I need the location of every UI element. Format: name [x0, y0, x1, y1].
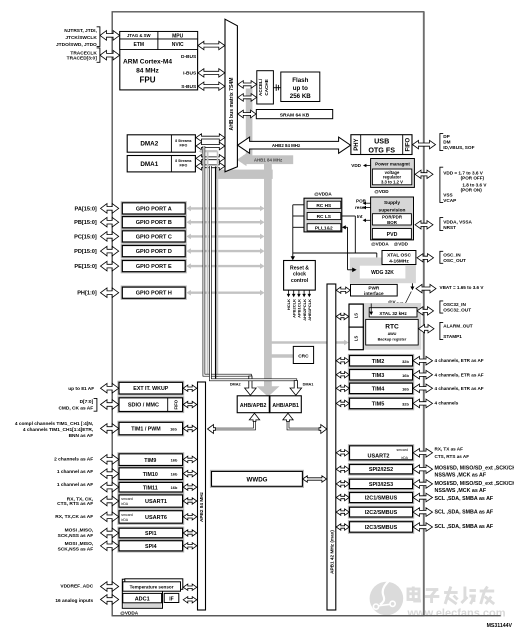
svg-text:PWR: PWR	[368, 286, 380, 291]
MPU box	[158, 32, 198, 40]
svg-text:4 channels, ETR as AF: 4 channels, ETR as AF	[435, 386, 484, 391]
svg-text:Int: Int	[357, 214, 363, 219]
svg-text:SCK,NSS as AF: SCK,NSS as AF	[58, 547, 94, 553]
svg-text:JTDO/SWD, JTDO: JTDO/SWD, JTDO	[56, 42, 97, 48]
svg-text:4 channels: 4 channels	[435, 400, 459, 405]
JTAG & SW box	[120, 32, 158, 40]
wire RC LS to clock rail	[342, 215, 356, 217]
svg-text:up to: up to	[293, 85, 308, 92]
bracket TRACE pins	[97, 48, 100, 62]
GPIO PORT C box	[121, 230, 186, 243]
peripheral pin arrows left rail	[101, 383, 119, 393]
svg-text:JTAG & SW: JTAG & SW	[127, 33, 151, 38]
svg-text:RX, TX,CK as AF: RX, TX,CK as AF	[55, 514, 93, 520]
svg-text:MOSI/SD, MISO/SD_ext ,SCK/CK: MOSI/SD, MISO/SD_ext ,SCK/CK	[435, 465, 514, 471]
svg-text:16b: 16b	[171, 458, 178, 463]
cache-flash link	[274, 87, 281, 89]
svg-text:SCL ,SDA, SMBA as AF: SCL ,SDA, SMBA as AF	[435, 524, 494, 530]
RTC backup gray box	[349, 303, 421, 350]
AHB1 gray band below bus matrix	[217, 170, 273, 179]
svg-text:VDDA, VSSA: VDDA, VSSA	[443, 219, 472, 224]
svg-text:Reset &: Reset &	[290, 266, 309, 272]
ALARM pin labels	[440, 322, 443, 339]
gray AHB1 branch to GPIO E	[189, 265, 261, 267]
svg-text:TIM4: TIM4	[372, 386, 385, 392]
SDIO MMC box	[118, 397, 184, 413]
USB pins arrow	[413, 140, 436, 148]
I2C3/SMBUS box	[348, 521, 413, 534]
AHB/APB1 bridge	[270, 396, 301, 413]
svg-text:PVD: PVD	[387, 232, 398, 238]
svg-text:AHB1PCLK: AHB1PCLK	[307, 299, 312, 321]
NVIC box	[158, 39, 198, 50]
svg-text:CTS, RTS as AF: CTS, RTS as AF	[435, 454, 470, 459]
svg-text:SPI3/I2S3: SPI3/I2S3	[369, 482, 393, 488]
PVD box	[372, 229, 411, 240]
XTAL OSC box	[382, 251, 416, 265]
svg-text:clock: clock	[293, 272, 306, 278]
RTC box	[366, 319, 419, 345]
svg-text:TIM11: TIM11	[143, 485, 158, 491]
svg-text:smcard: smcard	[121, 513, 133, 517]
svg-text:(POR ON): (POR ON)	[461, 188, 483, 193]
svg-text:www.elecfans.com: www.elecfans.com	[407, 608, 506, 620]
svg-text:ADC1: ADC1	[135, 597, 150, 603]
svg-text:VSS: VSS	[443, 193, 452, 198]
USB pin labels	[440, 134, 443, 151]
svg-text:USB: USB	[374, 136, 389, 145]
svg-text:CMD, CK as AF: CMD, CK as AF	[58, 406, 93, 412]
svg-text:I-BUS: I-BUS	[183, 71, 197, 77]
DMA1 to bus-matrix arrows	[196, 155, 225, 163]
RTC to APB1 arrow	[336, 313, 349, 319]
VDDA NRST pin labels	[440, 218, 443, 231]
WWDG box	[210, 470, 303, 487]
WDG 32K box	[360, 266, 406, 279]
svg-text:AHB/APB2: AHB/APB2	[240, 403, 267, 409]
svg-text:FIFO: FIFO	[180, 163, 188, 167]
svg-text:GPIO PORT C: GPIO PORT C	[136, 234, 172, 240]
svg-text:@VDDA: @VDDA	[314, 192, 332, 197]
watchdog backup gray box	[350, 258, 416, 284]
SRAM box	[256, 110, 332, 119]
svg-text:PLL1&2: PLL1&2	[315, 225, 333, 231]
svg-text:USART2: USART2	[367, 453, 389, 459]
TIM10 box	[118, 467, 184, 481]
svg-text:LS: LS	[354, 313, 359, 319]
ADC1 box	[123, 593, 162, 602]
gray AHB1 branch to GPIO H	[189, 292, 261, 294]
svg-text:PH[1:0]: PH[1:0]	[77, 291, 97, 297]
svg-text:AWU: AWU	[388, 332, 397, 336]
svg-text:supervision: supervision	[379, 207, 406, 213]
svg-text:I2C3/SMBUS: I2C3/SMBUS	[365, 525, 398, 531]
clock wires to RCC	[293, 204, 304, 206]
svg-text:NRST: NRST	[443, 225, 456, 230]
svg-text:@VDD: @VDD	[394, 242, 409, 247]
svg-text:SCK,NSS as AF: SCK,NSS as AF	[58, 533, 94, 539]
wire XTAL to PLL region	[293, 252, 377, 254]
svg-text:ARM Cortex-M4: ARM Cortex-M4	[123, 59, 172, 66]
GPIO PORT D box	[121, 244, 186, 257]
svg-text:APB1 42 MHz (max): APB1 42 MHz (max)	[329, 530, 334, 574]
TRACE pins arrow	[100, 50, 120, 60]
svg-text:VDDREF_ADC: VDDREF_ADC	[60, 584, 93, 590]
svg-text:CACHE: CACHE	[264, 79, 269, 95]
svg-text:GPIO PORT E: GPIO PORT E	[136, 264, 172, 270]
POR PDR BOR box	[372, 214, 411, 225]
svg-text:WWDG: WWDG	[247, 476, 268, 483]
bus-matrix to SRAM arrow	[238, 110, 256, 118]
svg-text:TIM5: TIM5	[372, 401, 385, 407]
svg-text:OTG FS: OTG FS	[368, 145, 395, 154]
I-BUS arrow	[198, 69, 225, 77]
PWR interface box	[351, 284, 398, 296]
svg-text:SPI2/I2S2: SPI2/I2S2	[369, 467, 393, 473]
svg-text:@VDDA: @VDDA	[371, 242, 389, 247]
svg-text:256 KB: 256 KB	[290, 93, 312, 100]
svg-text:Temperature sensor: Temperature sensor	[130, 585, 174, 590]
svg-text:Backup register: Backup register	[378, 338, 407, 342]
svg-text:BNN as AF: BNN as AF	[69, 433, 94, 439]
svg-text:16b: 16b	[170, 426, 177, 431]
svg-text:VDD: VDD	[351, 163, 361, 168]
svg-text:TIM10: TIM10	[143, 472, 158, 478]
WWDG to APB1 arrow	[303, 476, 327, 482]
DMA2 block	[127, 135, 195, 152]
GPIO pin arrows	[101, 204, 119, 214]
USB OTG FS block	[351, 135, 412, 155]
DMA1 request path to bridge	[210, 166, 295, 388]
JTAG pins arrow	[100, 31, 120, 41]
svg-text:D[7:0]: D[7:0]	[80, 399, 94, 405]
svg-text:PB[15:0]: PB[15:0]	[74, 220, 97, 226]
svg-text:EXT IT. WKUP: EXT IT. WKUP	[133, 386, 168, 392]
gray AHB1 branch to RTC block	[272, 341, 346, 343]
svg-text:1 channel as AF: 1 channel as AF	[57, 482, 93, 488]
I2C1/SMBUS box	[348, 491, 413, 503]
svg-text:MOSI ,MISO,: MOSI ,MISO,	[65, 528, 94, 534]
svg-text:32b: 32b	[402, 401, 409, 406]
Power managmt block	[371, 159, 415, 188]
gray echo line DMA1	[217, 151, 219, 377]
svg-text:AHB bus matrix 7S4M: AHB bus matrix 7S4M	[229, 78, 235, 131]
svg-text:XTAL 32 kHz: XTAL 32 kHz	[379, 311, 407, 316]
svg-text:XTAL OSC: XTAL OSC	[387, 252, 411, 258]
svg-text:FIFO: FIFO	[180, 143, 188, 147]
svg-text:1 channel as AF: 1 channel as AF	[57, 469, 93, 475]
power pins arrow	[415, 170, 433, 178]
svg-text:AHB2 84 MHz: AHB2 84 MHz	[272, 143, 301, 148]
svg-text:MPU: MPU	[172, 33, 184, 39]
svg-text:VBAT = 1.65 to 3.6 V: VBAT = 1.65 to 3.6 V	[440, 285, 485, 290]
ARM Cortex CPU block	[120, 32, 198, 90]
GPIO PORT A box	[121, 202, 186, 215]
svg-text:Supply: Supply	[384, 200, 400, 206]
OSC32 pin labels	[440, 301, 443, 313]
DMA2 request path to bridge	[204, 146, 251, 388]
svg-text:PC[15:0]: PC[15:0]	[74, 234, 97, 240]
svg-text:DMA1: DMA1	[303, 383, 314, 387]
gray echo band DMA	[202, 150, 218, 152]
svg-text:NSS/WS ,MCK as AF: NSS/WS ,MCK as AF	[435, 488, 487, 494]
svg-text:WDG 32K: WDG 32K	[371, 270, 394, 276]
svg-text:AHB1 84 MHz: AHB1 84 MHz	[254, 158, 283, 163]
svg-text:NJTRST, JTDI,: NJTRST, JTDI,	[64, 28, 97, 34]
Temperature sensor box	[123, 582, 181, 591]
svg-text:Flash: Flash	[292, 77, 308, 84]
svg-text:interface: interface	[364, 291, 384, 296]
bracket JTAG pins	[97, 27, 100, 47]
watermark logo circle	[370, 582, 404, 616]
OSC pins arrow	[417, 254, 434, 262]
svg-text:4-16MHz: 4-16MHz	[389, 259, 409, 265]
svg-text:JTCK/SWCLK: JTCK/SWCLK	[65, 35, 97, 41]
svg-text:16b: 16b	[402, 386, 409, 391]
svg-text:SPI1: SPI1	[145, 531, 157, 537]
USART6 box	[118, 510, 184, 525]
NVIC to bus-matrix arrow	[198, 41, 225, 49]
LSI box	[349, 327, 363, 350]
svg-text:TIM1 / PWM: TIM1 / PWM	[131, 427, 161, 433]
svg-text:MS31144V: MS31144V	[487, 623, 513, 629]
svg-text:OSC32_IN: OSC32_IN	[443, 302, 466, 307]
svg-text:ALARM_OUT: ALARM_OUT	[443, 323, 473, 328]
svg-text:TRACED[3:0]: TRACED[3:0]	[67, 56, 98, 62]
wire into XTAL32	[370, 304, 372, 312]
TIM1 PWM box	[118, 421, 184, 436]
gray AHB1 branch to GPIO B	[189, 221, 261, 223]
PLL box	[307, 224, 341, 231]
svg-text:16b: 16b	[171, 485, 178, 490]
Reset and clock control box	[284, 261, 316, 291]
DMA2 to bus-matrix arrows	[196, 134, 225, 142]
RC LS box	[307, 213, 341, 220]
chip boundary box	[112, 12, 424, 616]
svg-text:NVIC: NVIC	[172, 42, 184, 48]
svg-text:PE[15:0]: PE[15:0]	[74, 264, 97, 270]
SPI3/I2S3 box	[348, 478, 413, 490]
bridge to APB2 connector	[211, 416, 255, 429]
svg-text:CRC: CRC	[298, 354, 309, 360]
svg-text:PA[15:0]: PA[15:0]	[75, 206, 97, 212]
svg-text:DMA2: DMA2	[140, 141, 158, 148]
gray AHB1 branch to GPIO A	[189, 207, 261, 209]
gray echo line DMA2	[207, 151, 209, 376]
AHB1 gray riser to bridges	[264, 158, 272, 388]
svg-text:OSC_IN: OSC_IN	[443, 252, 461, 257]
SPI4 box	[118, 540, 184, 552]
svg-text:I2C1/SMBUS: I2C1/SMBUS	[365, 496, 398, 502]
svg-text:4 compl channels TIM1_CH1 [:4]: 4 compl channels TIM1_CH1 [:4]N,	[15, 421, 94, 427]
TIM2 box	[348, 354, 413, 367]
svg-text:DMA2: DMA2	[230, 383, 241, 387]
svg-text:IF: IF	[169, 596, 173, 602]
svg-text:LS: LS	[354, 336, 359, 342]
I2C2/SMBUS box	[348, 506, 413, 518]
GPIO PORT H box	[121, 286, 186, 299]
RC HS box	[307, 201, 341, 208]
svg-text:SPI4: SPI4	[145, 544, 157, 550]
AHB1 84MHz gray bus bar	[243, 155, 293, 164]
TIM4 box	[348, 382, 413, 395]
TIM11 box	[118, 481, 184, 493]
gray AHB1 branch to GPIO C	[189, 235, 261, 237]
svg-text:AHB/APB1: AHB/APB1	[272, 403, 299, 409]
AHB/APB2 bridge	[237, 396, 269, 413]
svg-text:smcard: smcard	[397, 448, 409, 452]
svg-text:DMA1: DMA1	[140, 161, 158, 168]
XTAL 32kHz box	[369, 308, 417, 317]
svg-text:USART6: USART6	[145, 515, 167, 521]
svg-text:GPIO PORT H: GPIO PORT H	[136, 291, 172, 297]
svg-text:control: control	[291, 278, 309, 284]
svg-text:4 channels, ETR as AF: 4 channels, ETR as AF	[435, 372, 484, 377]
svg-text:NSS/WS ,MCK as AF: NSS/WS ,MCK as AF	[435, 472, 487, 478]
svg-text:up to 81 AF: up to 81 AF	[68, 386, 94, 392]
VBAT pins arrow	[416, 284, 436, 292]
TIM9 box	[118, 453, 184, 467]
svg-text:8 Streams: 8 Streams	[175, 139, 191, 143]
watermark chinese characters	[408, 589, 419, 600]
svg-text:16b: 16b	[171, 472, 178, 477]
IF box	[164, 593, 179, 602]
svg-text:SDIO / MMC: SDIO / MMC	[128, 403, 159, 409]
OSC pin labels	[440, 251, 443, 263]
svg-text:16b: 16b	[402, 373, 409, 378]
svg-text:USART1: USART1	[145, 499, 167, 505]
svg-text:DP: DP	[443, 134, 450, 139]
GPIO PORT B box	[121, 216, 186, 229]
Flash box	[281, 72, 320, 102]
ADC container box	[122, 579, 162, 608]
svg-text:SRAM 64 KB: SRAM 64 KB	[280, 113, 310, 119]
gray AHB1 branch to CRC	[272, 354, 294, 358]
DMA1 block	[127, 156, 195, 172]
svg-text:MOSI/SD, MISO/SD_ext ,SCK/CK: MOSI/SD, MISO/SD_ext ,SCK/CK	[435, 481, 514, 487]
svg-text:SCL ,SDA, SMBA as AF: SCL ,SDA, SMBA as AF	[435, 510, 494, 516]
svg-text:4 channels, ETR as AF: 4 channels, ETR as AF	[435, 358, 484, 363]
USART2 box	[348, 445, 413, 461]
AHB bus matrix	[225, 19, 237, 172]
APB1 bus bar	[327, 284, 336, 610]
svg-text:3.3 to 1.2 V: 3.3 to 1.2 V	[381, 180, 403, 185]
svg-text:CTS, RTS as AF: CTS, RTS as AF	[57, 501, 93, 507]
svg-text:D-BUS: D-BUS	[181, 54, 197, 60]
ALARM pins arrow	[419, 325, 435, 333]
svg-text:GPIO PORT B: GPIO PORT B	[136, 220, 172, 226]
OSC32 pins arrow	[417, 307, 434, 315]
clock output stubs	[288, 290, 290, 295]
svg-text:DM: DM	[443, 139, 450, 144]
svg-text:ID,VBUS, SOF: ID,VBUS, SOF	[443, 145, 474, 150]
TIM3 box	[348, 368, 413, 381]
svg-text:TIM3: TIM3	[372, 373, 385, 379]
svg-text:Power managmt: Power managmt	[375, 161, 410, 166]
EXT IT WKUP box	[118, 381, 184, 395]
svg-text:ETM: ETM	[134, 42, 145, 48]
Supply supervision block	[371, 197, 414, 240]
svg-text:FIFO: FIFO	[173, 399, 178, 409]
svg-text:STAMP1: STAMP1	[443, 334, 462, 339]
AHB2 84MHz bus arrow	[238, 137, 351, 153]
gray AHB1 branch to GPIO D	[189, 250, 261, 252]
svg-text:POR/PDR: POR/PDR	[382, 215, 403, 220]
svg-text:FPU: FPU	[140, 75, 156, 84]
right column pin arrows	[413, 356, 433, 365]
svg-text:4 channels TIM1_CH1[1:4]ETR,: 4 channels TIM1_CH1[1:4]ETR,	[23, 427, 94, 433]
AHB1 gray riser upper segment	[246, 89, 253, 164]
ETM box	[120, 39, 158, 50]
svg-text:TIM2: TIM2	[372, 359, 385, 365]
svg-text:irDA: irDA	[401, 456, 408, 460]
svg-text:RX, TX as AF: RX, TX as AF	[435, 446, 464, 451]
APB2 link arrows	[183, 385, 197, 391]
chip boundary right rail	[423, 12, 425, 616]
APB1 link arrows	[336, 358, 349, 364]
svg-text:TIM9: TIM9	[144, 458, 156, 464]
svg-text:32b: 32b	[402, 359, 409, 364]
svg-text:PD[15:0]: PD[15:0]	[74, 249, 97, 255]
svg-text:GPIO PORT D: GPIO PORT D	[136, 249, 172, 255]
GPIO PORT E box	[121, 259, 186, 272]
svg-text:smcard: smcard	[121, 497, 133, 501]
USART1 box	[118, 494, 184, 509]
svg-text:PHY: PHY	[354, 138, 360, 150]
bridge to APB1 connector	[288, 416, 323, 429]
svg-text:16 analog inputs: 16 analog inputs	[55, 598, 93, 604]
supervision pins arrow	[415, 221, 433, 229]
VBAT wire	[411, 283, 413, 287]
PWR to APB1 arrow	[336, 287, 350, 293]
svg-text:(POR OFF): (POR OFF)	[461, 176, 485, 181]
svg-text:8 Streams: 8 Streams	[175, 159, 191, 163]
svg-text:irDA: irDA	[121, 502, 128, 506]
LSE box	[349, 304, 363, 327]
svg-text:RTC: RTC	[385, 323, 399, 330]
svg-text:OSC32_OUT: OSC32_OUT	[443, 308, 471, 313]
VDD pin labels	[440, 167, 443, 202]
svg-text:APB2 84 MHz: APB2 84 MHz	[199, 491, 204, 522]
Temperature sensor shadow box	[125, 579, 183, 590]
svg-text:VCAP: VCAP	[443, 198, 456, 203]
svg-text:irDA: irDA	[121, 518, 128, 522]
svg-text:@VDDA: @VDDA	[120, 611, 138, 616]
wire arrow into watchdog domain	[348, 269, 354, 271]
APB2 bus bar	[198, 382, 206, 610]
svg-text:FIFO: FIFO	[406, 137, 412, 151]
SPI2/I2S2 box	[348, 463, 413, 475]
SPI1 box	[118, 527, 184, 539]
TIM5 box	[348, 397, 413, 410]
bus-matrix to cache arrows	[238, 81, 257, 89]
svg-text:S-BUS: S-BUS	[181, 84, 197, 90]
S-BUS arrow	[198, 82, 225, 90]
svg-text:MOSI ,MISO,: MOSI ,MISO,	[65, 541, 94, 547]
svg-text:RC HS: RC HS	[316, 203, 332, 209]
bottom border line	[112, 615, 501, 617]
svg-text:GPIO PORT A: GPIO PORT A	[136, 206, 172, 212]
svg-text:2 channels as AF: 2 channels as AF	[54, 457, 93, 463]
svg-text:SCL ,SDA, SMBA as AF: SCL ,SDA, SMBA as AF	[435, 496, 494, 502]
CRC box	[293, 346, 313, 363]
svg-text:BOR: BOR	[387, 220, 398, 225]
svg-text:84 MHz: 84 MHz	[136, 68, 159, 75]
svg-text:OSC_OUT: OSC_OUT	[443, 258, 466, 263]
svg-text:RC LS: RC LS	[317, 214, 332, 220]
svg-text:ACCEL/: ACCEL/	[258, 78, 263, 96]
RC oscillators outer box	[304, 198, 342, 232]
